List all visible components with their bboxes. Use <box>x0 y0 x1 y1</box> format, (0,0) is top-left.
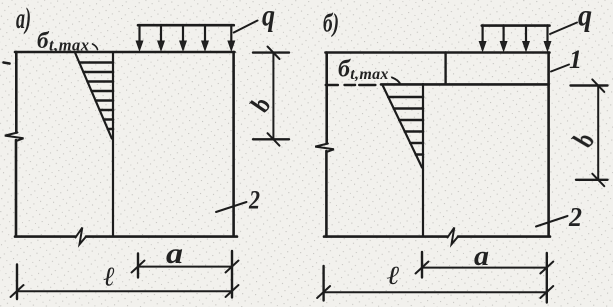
dimension a right tick (а) <box>226 261 239 273</box>
dimension b bottom tick (б) <box>592 174 604 187</box>
stress triangle hatch lines (б) <box>388 97 423 155</box>
dimension l line (б) <box>324 291 547 293</box>
svg-text:2: 2 <box>248 186 260 215</box>
leader line to 2 (а) <box>216 202 247 212</box>
load arrow 3 (а) <box>180 25 187 51</box>
dimension b line (б) <box>597 86 599 180</box>
svg-text:б): б) <box>323 9 339 38</box>
svg-text:a: a <box>474 240 489 272</box>
dimension b top bar (а) <box>253 51 289 53</box>
dimension a line (б) <box>422 267 547 269</box>
dimension l left bar (а) <box>16 265 18 300</box>
break symbol on left edge (б) <box>315 144 334 153</box>
shared dimension end bar (а) <box>231 251 233 298</box>
svg-text:1: 1 <box>569 45 582 74</box>
wall left edge with break (б) <box>325 53 328 237</box>
inner vertical line (б) <box>422 84 424 236</box>
leader line to q (а) <box>234 21 258 33</box>
load arrow 1 (б) <box>479 25 486 51</box>
wall bottom edge with break (б) <box>324 235 550 238</box>
dimension b top tick (б) <box>592 79 604 92</box>
svg-text:а): а) <box>16 2 31 35</box>
dimension a left bar (б) <box>421 252 423 278</box>
leader line to 2 (б) <box>536 216 568 227</box>
distributed load q line (а) <box>138 24 234 27</box>
dimension b bottom bar (а) <box>253 138 289 140</box>
wall left edge with break (а) <box>15 52 18 236</box>
tail from sigma label to triangle (б) <box>392 78 401 85</box>
dimension l left tick (а) <box>11 285 24 297</box>
label b (а) <box>243 93 278 116</box>
load arrow 3 (б) <box>523 25 530 51</box>
svg-text:2: 2 <box>568 202 582 232</box>
dimension l left tick (б) <box>317 286 330 298</box>
svg-text:ℓ: ℓ <box>387 261 400 290</box>
distributed load q line (б) <box>482 24 550 27</box>
scan speck at left margin <box>4 63 10 64</box>
break symbol on bottom edge (а) <box>76 228 87 245</box>
dimension l right tick (а) <box>226 285 239 297</box>
load arrow 4 (а) <box>202 25 209 51</box>
load arrow 5 (а) <box>228 25 235 51</box>
dimension a left tick (б) <box>416 262 429 274</box>
label b (б) <box>564 129 603 150</box>
stress triangle hatch lines (а) <box>80 63 114 130</box>
svg-text:q: q <box>262 0 275 33</box>
dimension b bottom tick (а) <box>268 133 280 146</box>
stress triangle hypotenuse (а) <box>75 53 112 139</box>
dimension l line (а) <box>17 290 232 292</box>
dimension a left bar (а) <box>137 254 139 278</box>
dimension a right tick (б) <box>540 262 553 274</box>
leader line to q (б) <box>550 23 577 35</box>
dimension b bottom bar (б) <box>576 179 608 181</box>
dimension l right tick (б) <box>540 286 553 298</box>
wall top edge (а) <box>15 51 235 54</box>
dimension b top tick (а) <box>268 47 280 60</box>
svg-text:q: q <box>578 0 592 33</box>
load arrow 1 (а) <box>136 25 143 51</box>
load arrow 2 (а) <box>158 25 165 51</box>
dimension a left tick (а) <box>132 261 145 273</box>
dimension a line (а) <box>138 266 232 268</box>
dimension b line (а) <box>272 53 274 140</box>
comma tail after sigma label (а) <box>93 44 98 50</box>
stress triangle hypotenuse (б) <box>383 85 423 168</box>
inner vertical line (а) <box>112 52 114 236</box>
shared dimension end bar (б) <box>546 253 548 303</box>
wall right edge (а) <box>232 52 235 236</box>
load arrow 2 (б) <box>500 25 507 51</box>
dimension b top bar (б) <box>571 84 608 86</box>
break symbol on bottom edge (б) <box>448 228 459 245</box>
leader line to 1 (б) <box>551 65 569 72</box>
svg-text:ℓ: ℓ <box>104 262 116 292</box>
wall bottom edge with break (а) <box>15 235 237 238</box>
wall right edge (б) <box>547 53 550 237</box>
break symbol on left edge (а) <box>5 133 24 142</box>
dimension l left bar (б) <box>322 266 324 301</box>
distribution strip divider (б) <box>444 53 446 84</box>
dashed max-stress level line (б) <box>326 84 376 86</box>
wall top edge (б) <box>326 51 550 54</box>
load arrow 4 (б) <box>544 25 551 51</box>
svg-text:a: a <box>166 237 183 270</box>
distribution strip bottom line (б) <box>381 83 549 86</box>
